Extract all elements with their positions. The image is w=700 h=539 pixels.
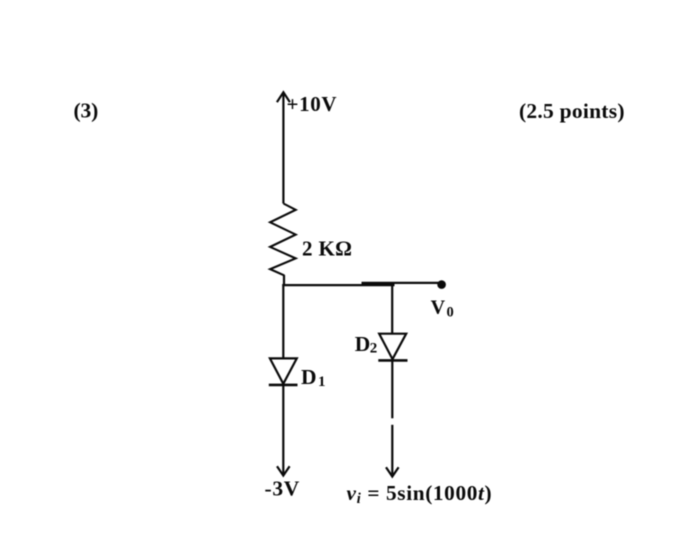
svg-text:0: 0 [447,304,454,320]
svg-text:2 KΩ: 2 KΩ [302,237,352,261]
svg-text:(3): (3) [74,99,99,123]
wire: resistor bottom to node A [283,275,285,284]
svg-text:1: 1 [318,374,326,390]
svg-text:V: V [431,297,446,319]
wire: D2 to vi source (lower segment after gap) [386,425,399,477]
svg-text:2: 2 [370,341,378,357]
svg-text:vi = 5sin(1000t): vi = 5sin(1000t) [347,481,493,507]
node Vo terminal dot [437,280,446,289]
wire: node A horizontal branch down to diode D2 [391,285,393,335]
resistor R1 2 KΩ zigzag [270,204,296,276]
diode D1 [269,358,298,385]
diode D2 [378,334,407,361]
power supply +10V arrow [277,92,290,203]
wire: node A horizontal to D2 branch [282,284,394,286]
svg-text:(2.5 points): (2.5 points) [519,99,625,123]
svg-text:+10V: +10V [287,92,337,116]
svg-text:D: D [355,332,371,356]
wire: D2 to vi source (upper segment) [391,361,393,419]
wire: overlapping horizontal lead to Vo terminal [362,282,441,284]
wire: D1 to -3V source arrow [277,385,290,476]
wire: node A down to diode D1 [282,284,284,359]
svg-text:D: D [301,365,317,389]
svg-text:-3V: -3V [265,476,300,500]
